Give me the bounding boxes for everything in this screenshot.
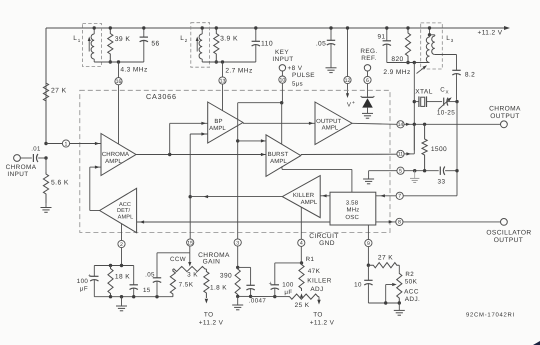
resistor 5.6K (input bias lower) [45,158,47,172]
resistor 7.5K [170,269,175,297]
resistor 1.8K [204,269,209,298]
svg-text:14: 14 [398,122,404,128]
svg-text:39 K: 39 K [115,36,131,43]
svg-text:INPUT: INPUT [7,171,28,178]
wire left drop from rail to input node [45,28,47,140]
svg-text:9: 9 [367,241,370,247]
wire 2.7MHz node to pin 13 [222,62,224,77]
ground (pin 5 internal) [363,178,374,180]
pin 1 [46,143,62,145]
resistor 1500 [422,124,427,170]
wire rail to pin 12 [347,28,349,76]
svg-text:.01: .01 [31,146,41,153]
svg-text:3.9 K: 3.9 K [220,36,238,43]
svg-text:OUTPUT: OUTPUT [316,118,341,125]
svg-text:110: 110 [261,41,273,48]
svg-text:47K: 47K [308,268,321,275]
ground (acc network) [398,303,400,310]
svg-text:CHROMA: CHROMA [6,164,37,171]
zener diode (internal reference) [367,84,369,98]
wire burst to oscillator [281,166,283,169]
wire pin2 bottom bus [94,296,173,298]
svg-text:PULSE: PULSE [292,72,315,79]
svg-text:1500: 1500 [431,146,447,153]
wire burst output to pin 11 [301,153,397,155]
svg-text:10-25: 10-25 [437,110,455,117]
op-amp OUTPUT AMPL [315,102,352,145]
svg-text:.05: .05 [145,272,155,279]
wire L1 tank bottom bus / node 4.3 MHz [94,61,144,63]
svg-text:1: 1 [65,141,68,147]
capacitor .0047 [238,266,251,268]
svg-text:15: 15 [143,287,151,294]
svg-text:50K: 50K [405,279,418,286]
wire killer output to pin 15 riser [190,196,282,198]
ground (pin 3 network) [237,296,239,304]
wire pin 13 into BP ampl [222,84,224,111]
op-amp CHROMA AMPL [101,134,136,176]
svg-text:8: 8 [398,220,401,226]
svg-text:+: + [352,100,355,106]
svg-text:GAIN: GAIN [203,259,221,266]
svg-text:4: 4 [300,241,303,247]
svg-text:GND: GND [319,240,335,247]
svg-text:18 K: 18 K [115,274,130,281]
wire pin 11 up to pin 14 line [404,153,414,155]
wire pin 15 wiper arrow [189,253,191,263]
wire key input to pin 10 [281,71,283,76]
wire pin 3 riser / keying branch [237,103,239,239]
svg-text:OSCILLATOR: OSCILLATOR [486,230,531,237]
svg-text:+11.2 V: +11.2 V [478,30,503,37]
wire osc to pin 7 [376,195,396,197]
pin 6 [364,76,371,83]
terminal OSCILLATOR OUTPUT [501,219,508,226]
pin 10 [279,76,286,83]
pin 3 [234,239,241,246]
svg-text:100: 100 [282,282,294,289]
svg-text:+11.2 V: +11.2 V [310,320,335,327]
svg-text:3: 3 [236,240,239,246]
ground (.05 cap) [326,67,337,69]
wire chroma out up to BP input [169,123,171,154]
svg-text:CA3066: CA3066 [146,92,177,101]
svg-text:+8 V: +8 V [288,65,303,72]
svg-text:ADJ.: ADJ. [405,296,420,303]
svg-text:OSC: OSC [345,214,359,221]
svg-text:.0047: .0047 [249,298,267,305]
svg-text:15: 15 [187,240,193,246]
wire pin 10 key line down to burst top [281,83,283,103]
L3 tuning arrow [417,67,426,74]
svg-text:AMPL: AMPL [270,158,287,165]
resistor 390 [235,267,240,296]
capacitor .15 [133,266,135,285]
svg-text:.05: .05 [316,41,326,48]
capacitor .01 input coupling [20,157,31,159]
pin 5 [397,167,404,174]
svg-text:100: 100 [77,278,89,285]
ground (zener) [362,112,373,114]
svg-text:R2: R2 [405,271,414,278]
svg-text:X: X [445,90,448,95]
op-amp BURST AMPL [266,135,301,177]
svg-text:10: 10 [280,77,286,83]
svg-text:11: 11 [398,152,403,158]
svg-text:L: L [446,35,450,42]
pin 3 lower network [237,246,239,267]
svg-text:CHROMA: CHROMA [489,106,521,113]
scan artifact bottom right corner [533,341,540,345]
wire 4.3MHz node to pin 16 [118,62,120,78]
wire pin 15 riser to BP input 2 [189,134,191,239]
tank L1 dashed box [83,24,102,67]
resistor 3.9K (L2 damping) [214,28,219,62]
resistor 18K [108,266,113,297]
wire +11.2V top supply rail [46,27,506,29]
wire 2.9 MHz bus [387,62,430,64]
svg-text:91: 91 [378,34,386,41]
svg-text:13: 13 [220,78,226,84]
pin 8 [396,218,403,225]
capacitor .05 bypass [330,28,332,40]
op-amp KILLER AMPL [282,176,320,218]
resistor 39K (L1 damping) [108,28,113,62]
variable capacitor Cx 10-25 [443,98,445,106]
svg-text:R1: R1 [306,256,315,263]
capacitor 110pF [255,28,257,41]
svg-text:AMPL: AMPL [118,215,134,221]
svg-text:56: 56 [151,41,159,48]
svg-text:6: 6 [366,78,369,84]
svg-text:ACC: ACC [404,289,419,296]
svg-text:μF: μF [284,289,292,296]
op-amp BP AMPL [208,102,243,143]
pin 7 [396,192,403,199]
pin 13 [219,77,226,84]
wire output ampl to pin 14 [352,123,397,124]
terminal CHROMA INPUT [14,155,21,162]
wire crystal node vertical (8.2 cap to pin 7 line) [456,102,458,196]
capacitor 8.2pF [452,69,460,71]
svg-text:CCW: CCW [170,256,186,263]
wire osc to pin 8 [376,221,396,223]
wire keyed branch into burst input 1 [238,140,266,142]
wire pin 8 to oscillator output terminal [403,221,500,223]
svg-text:AMPL: AMPL [322,125,339,132]
svg-text:ACC: ACC [119,202,131,208]
capacitor 33pF [439,167,441,175]
svg-text:1.8 K: 1.8 K [210,285,227,292]
svg-text:5: 5 [399,169,402,175]
potentiometer R2 50K ACC ADJ [397,272,402,303]
svg-text:REG.: REG. [360,48,377,55]
svg-text:MHz: MHz [347,206,360,213]
capacitor 56pF [143,28,145,37]
wire 27K to R2 pot [398,265,400,272]
wire reg ref to pin 6 [367,71,369,76]
svg-text:2.7 MHz: 2.7 MHz [225,68,252,75]
svg-text:AMPL: AMPL [209,125,226,132]
wire pin 9 riser [367,225,369,239]
capacitor 100uF (pin 2) [93,266,95,277]
svg-text:OUTPUT: OUTPUT [494,237,524,244]
wire pin2 top bus [94,265,133,267]
svg-text:27 K: 27 K [51,88,67,95]
pin 11 [397,150,404,157]
svg-text:3.58: 3.58 [346,199,359,206]
svg-text:DET/: DET/ [117,207,130,214]
svg-text:7.5K: 7.5K [179,282,194,289]
ground (pin 2 network) [121,297,123,306]
svg-text:L: L [73,35,77,42]
pin 16 [115,78,122,85]
svg-text:L: L [180,35,184,42]
potentiometer 25K [275,296,289,298]
svg-text:3 K: 3 K [187,272,198,279]
svg-text:10: 10 [354,282,362,289]
terminal CHROMA OUTPUT [501,121,508,128]
wire ground bus to killer-adj network [251,296,275,298]
wire L3 tap down to 8.2 cap [456,55,458,71]
svg-text:7: 7 [398,194,401,200]
pin 9 lower network: ACC adjust [367,264,370,267]
svg-text:2.9 MHz: 2.9 MHz [383,69,410,76]
svg-text:16: 16 [116,79,122,85]
svg-text:INPUT: INPUT [272,56,293,63]
svg-text:8.2: 8.2 [465,72,475,79]
tank L2 dashed box [191,23,210,67]
resistor 27K (input bias upper) [43,28,48,144]
wire V+ internal supply arrow [347,84,349,95]
svg-text:OUTPUT: OUTPUT [490,113,520,120]
capacitor 91pF [386,28,388,41]
tank L3 dashed box [421,23,443,69]
wire pin 5 right / 33 cap line [404,170,439,172]
arrow to +11.2V (killer adj) [318,297,320,300]
pin 4 [298,239,305,246]
svg-text:AMPL: AMPL [301,199,318,206]
wire pin 1 to chroma ampl input [70,143,101,145]
svg-text:KEY: KEY [275,49,289,56]
wire killer to pin 4 [300,207,302,239]
svg-text:XTAL: XTAL [415,89,433,96]
svg-text:+11.2 V: +11.2 V [199,320,224,327]
svg-text:BURST: BURST [268,151,289,158]
pin 4 lower network: killer adjust [300,261,303,264]
pin 2 lower network [121,248,123,266]
wire pin 16 into chroma ampl [118,85,120,145]
pin 15 [187,239,194,246]
pin 12 [344,76,351,83]
svg-text:KILLER: KILLER [293,192,315,199]
svg-text:92CM-17042RI: 92CM-17042RI [466,312,515,319]
wire pin 4 down [300,246,302,263]
pin 2 [118,240,125,247]
svg-text:33: 33 [438,179,446,186]
wire pin 5 left internal to ground [369,170,397,172]
capacitor 10 (acc) [367,265,369,280]
wire ACC input from oscillator (3.58MHz) [137,221,330,223]
resistor 27K (acc) [368,263,399,268]
wire ACC to pin 2 [121,224,123,241]
svg-text:μF: μF [80,286,88,293]
svg-text:25 K: 25 K [295,302,310,309]
wire 2.9MHz node down to crystal [413,63,415,151]
svg-text:TO: TO [204,312,214,319]
pin 9 [365,239,372,246]
wire chroma ampl output to burst ampl [136,154,266,156]
wire BP output to output ampl [243,122,315,124]
svg-text:+: + [269,281,273,287]
svg-text:2: 2 [120,242,123,248]
capacitor .05 (pin 15 coupling) [156,281,158,297]
wire ACC output to chroma ampl input 2 [90,210,100,212]
resistor R1 47K [299,263,304,291]
svg-text:BP: BP [214,118,222,125]
ground (pin 5 external, light) [414,171,416,178]
wire L2 tank bottom bus / node 2.7 MHz [202,61,256,63]
wire oscillator to killer input [320,195,330,197]
IC CA3066 dashed outline [80,90,390,232]
svg-text:CIRCUIT: CIRCUIT [309,233,339,240]
svg-text:ADJ: ADJ [310,286,323,293]
inductor L3 tapped coil [429,28,431,35]
op-amp ACC DET/AMPL [100,188,137,232]
svg-text:820: 820 [391,56,403,63]
svg-text:4.3 MHz: 4.3 MHz [120,67,147,74]
svg-text:REF.: REF. [361,55,376,62]
svg-text:390: 390 [220,273,232,280]
svg-text:+: + [88,274,92,280]
wire pin 14 to chroma output terminal [404,123,500,125]
wire pin 7 right then up to crystal line [403,195,457,197]
arrow to +11.2V (chroma gain) [205,299,208,304]
svg-text:KILLER: KILLER [307,278,331,285]
oscillator 3.58 MHz OSC block [330,192,376,225]
svg-text:5.6 K: 5.6 K [51,180,69,187]
svg-text:CHROMA: CHROMA [102,151,129,158]
svg-text:AMPL: AMPL [105,158,122,165]
svg-text:5μs: 5μs [292,81,303,88]
ground (input) [45,203,47,207]
capacitor 100uF (killer) [275,262,302,264]
resistor 820 [405,28,410,63]
wire acc bottom bus [368,302,399,304]
pin 14 [397,121,404,128]
wire .05 to chroma gain wiper [157,252,190,254]
svg-text:TO: TO [313,312,323,319]
svg-text:27 K: 27 K [378,255,393,262]
potentiometer 3K CHROMA GAIN [173,266,207,271]
svg-text:12: 12 [345,78,351,84]
